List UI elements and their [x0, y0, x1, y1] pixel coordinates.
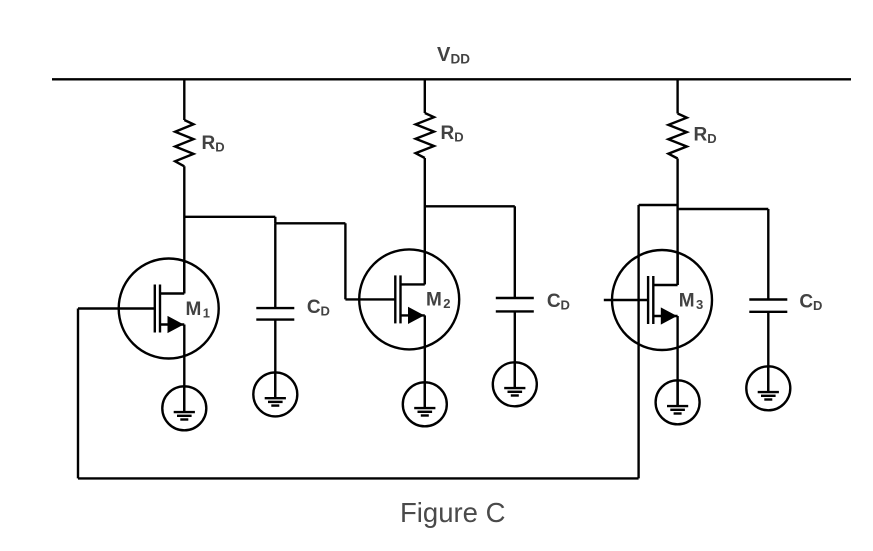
wire V_DD to R1: [183, 79, 185, 120]
svg-text:V: V: [437, 44, 451, 66]
wire R2 to M2 drain: [424, 158, 426, 284]
svg-text:D: D: [454, 130, 463, 145]
resistor R2: [416, 113, 434, 158]
wire C2 to ground: [514, 311, 516, 388]
capacitor C3: [749, 300, 787, 312]
svg-text:D: D: [561, 298, 570, 313]
capacitor C2: [496, 298, 534, 311]
wire M1 source to ground: [183, 325, 185, 413]
wire M2 source to ground: [424, 315, 426, 408]
transistor M1 (NMOS in circle): [78, 259, 219, 359]
resistor R3: [668, 114, 686, 159]
wire M3 source to ground: [676, 316, 678, 406]
wire node to M2 gate horizontal: [275, 222, 345, 224]
svg-text:R: R: [441, 123, 455, 144]
svg-text:1: 1: [203, 305, 210, 320]
svg-text:D: D: [813, 298, 822, 313]
wire feedback down through M3: [637, 205, 639, 478]
wire elbow down to M2 gate level: [344, 223, 346, 299]
svg-text:D: D: [707, 131, 716, 146]
wire V_DD rail: [52, 78, 851, 80]
wire M2 drain node horizontal: [425, 205, 515, 207]
wire V_DD to R3: [676, 79, 678, 113]
svg-text:D: D: [215, 140, 224, 155]
wire M3 drain node tap left: [639, 204, 678, 206]
svg-text:DD: DD: [451, 52, 471, 67]
svg-text:3: 3: [696, 297, 703, 312]
svg-text:C: C: [547, 291, 561, 312]
wire feedback bottom run: [78, 477, 639, 479]
svg-text:M: M: [679, 290, 695, 311]
wire V_DD to R2: [424, 79, 426, 113]
resistor R1: [175, 120, 193, 166]
transistor M3 (NMOS in circle): [604, 250, 712, 350]
wire C1 to ground: [274, 320, 276, 399]
wire node to C3: [767, 209, 769, 300]
svg-text:2: 2: [443, 296, 450, 311]
ground G3 under M2 (circled earth symbol): [403, 382, 447, 426]
ground G4 under C2 (circled earth symbol): [493, 362, 537, 406]
ground G5 under M3 (circled earth symbol): [656, 380, 700, 424]
wire M1 drain node horizontal: [184, 216, 275, 218]
ground G6 under C3 (circled earth symbol): [746, 366, 790, 410]
transistor M2 (NMOS in circle): [345, 249, 459, 349]
wire drain node step down: [274, 217, 276, 224]
svg-text:C: C: [307, 297, 321, 318]
ground G1 under M1 (circled earth symbol): [162, 386, 206, 430]
svg-text:D: D: [321, 304, 330, 319]
wire node to C1: [274, 223, 276, 308]
wire node to C2: [514, 206, 516, 298]
svg-text:R: R: [202, 133, 216, 154]
capacitor C1: [256, 308, 294, 320]
wire feedback up left side: [77, 309, 79, 479]
svg-text:R: R: [694, 125, 708, 146]
svg-text:Figure C: Figure C: [400, 497, 505, 528]
ground G2 under C1 (circled earth symbol): [253, 372, 297, 416]
svg-text:C: C: [799, 291, 813, 312]
svg-text:M: M: [186, 299, 202, 320]
wire M3 drain node to C3: [678, 208, 769, 210]
wire R3 to M3 drain: [676, 159, 678, 286]
wire R1 to M1 drain: [183, 166, 185, 293]
wire C3 to ground: [767, 312, 769, 392]
svg-text:M: M: [426, 290, 442, 311]
